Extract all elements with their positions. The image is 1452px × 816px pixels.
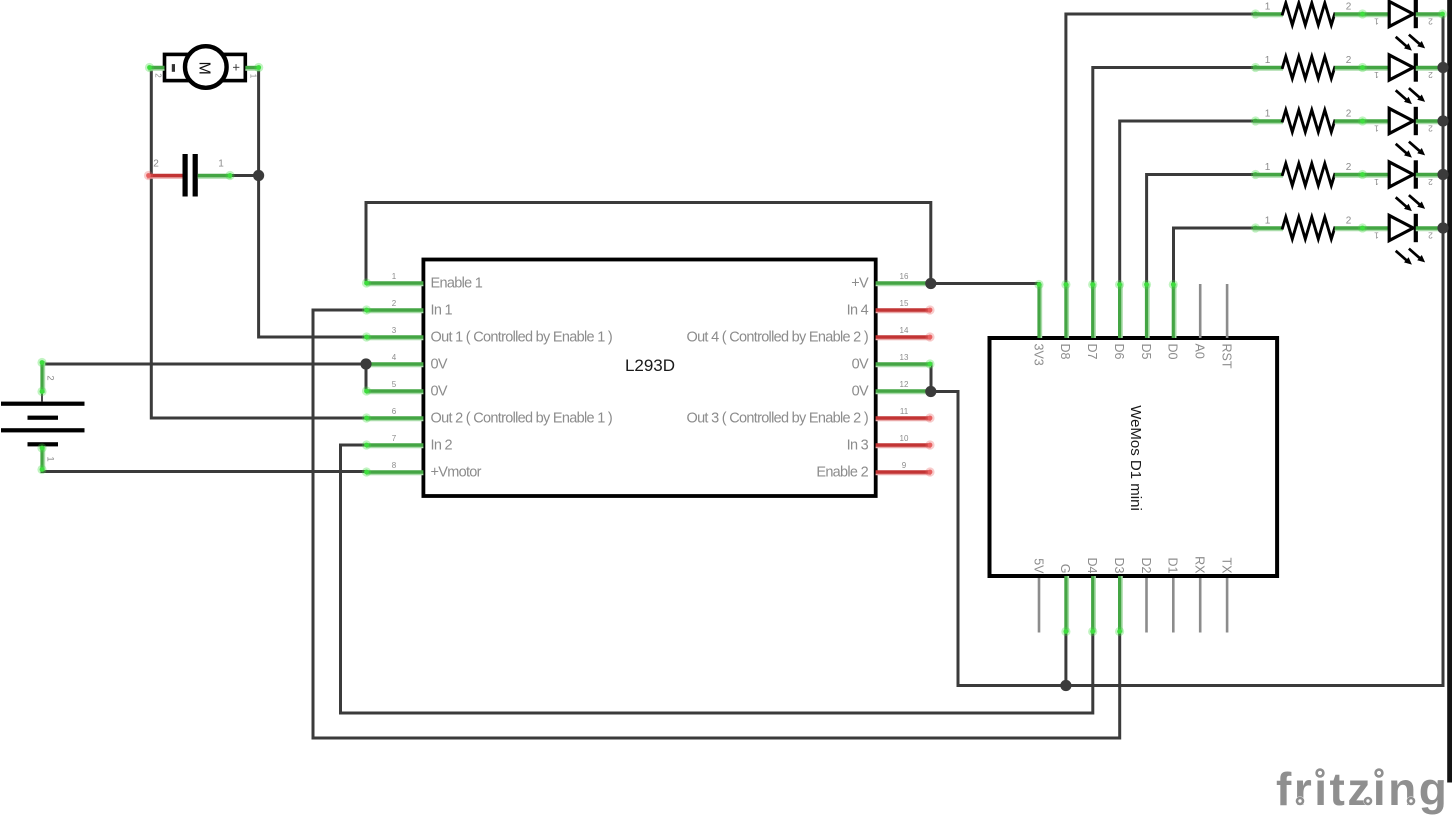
wire: L293D 0V pin13 down to 0V pin12 node [930, 364, 933, 392]
svg-text:3V3: 3V3 [1031, 344, 1045, 366]
wire: WeMos D6 up and over to resistor R3 [1120, 121, 1255, 284]
WeMos bottom pin D2 lead [1145, 578, 1148, 633]
resistor R1 and LED LED1 row [1251, 0, 1443, 51]
svg-text:2: 2 [45, 375, 56, 380]
svg-text:D4: D4 [1085, 558, 1099, 574]
resistor R2 and LED LED2 row [1251, 53, 1443, 104]
L293D pin 10 lead (In 3) [876, 446, 931, 448]
wire: WeMos G pin down to ground rail [1064, 633, 1067, 686]
wire: battery pin1 to L293D +Vmotor pin8 [42, 470, 366, 473]
L293D pin 12 lead (0V) [876, 392, 931, 394]
svg-text:2: 2 [392, 299, 397, 308]
L293D pin 2 lead (In 1) [366, 311, 423, 313]
node: 0V pin12 junction [925, 386, 936, 397]
wire: L293D Enable1 pin1 up and over to +V node [366, 203, 931, 284]
svg-text:3: 3 [392, 326, 397, 335]
svg-text:0V: 0V [431, 383, 448, 399]
WeMos bottom pin D4 lead [1094, 576, 1096, 633]
resistor R5 and LED LED5 row [1251, 214, 1443, 265]
battery pin 1 lead [43, 447, 45, 471]
node: LED5 cathode bus junction [1437, 222, 1448, 233]
svg-text:16: 16 [900, 272, 909, 281]
L293D pin 8 lead (+Vmotor) [366, 473, 423, 475]
L293D pin 5 lead (0V) [366, 392, 423, 394]
LED1 cathode bus corner cap [1438, 9, 1447, 18]
resistor R4 and LED LED4 row [1251, 160, 1443, 211]
wire: WeMos D8 up and over to resistor R1 [1066, 14, 1255, 284]
wire: WeMos D5 up and over to resistor R4 [1147, 175, 1255, 284]
motor M1 body rectangle [165, 54, 246, 80]
motor pin 1 lead [245, 69, 260, 71]
capacitor C1 plate right [193, 154, 198, 197]
wire: motor pin1 down to capacitor node [257, 68, 260, 176]
wire: LED cathode bus down right side to ground rail [1442, 14, 1445, 686]
capacitor pin 2 lead (red, unconnected) [147, 177, 183, 179]
svg-text:2: 2 [153, 73, 162, 78]
svg-text:G: G [1058, 564, 1072, 574]
WeMos top pin D5 lead [1148, 284, 1150, 339]
battery BAT1 plate short [28, 416, 59, 420]
node: LED2 cathode bus junction [1437, 62, 1448, 73]
svg-text:14: 14 [900, 326, 909, 335]
svg-text:Out 3 ( Controlled by Enable 2: Out 3 ( Controlled by Enable 2 ) [686, 410, 868, 426]
svg-text:11: 11 [900, 407, 909, 416]
wire: L293D In2 pin7 to WeMos D4 [341, 445, 1093, 713]
svg-text:9: 9 [902, 461, 907, 470]
op-amp driver IC U1 L293D body [423, 260, 875, 497]
svg-text:4: 4 [392, 353, 397, 362]
svg-text:5: 5 [392, 380, 397, 389]
svg-text:Out 2 ( Controlled by Enable 1: Out 2 ( Controlled by Enable 1 ) [431, 410, 613, 426]
battery pin 2 lead [43, 361, 45, 393]
battery internal pin lines [41, 393, 43, 402]
svg-text:5V: 5V [1031, 558, 1045, 574]
L293D pin 15 lead (In 4) [876, 311, 931, 313]
WeMos top pin 3V3 lead [1040, 284, 1042, 339]
svg-text:1: 1 [392, 272, 397, 281]
motor minus terminal mark [172, 64, 175, 72]
WeMos top pin A0 lead [1199, 284, 1202, 338]
WeMos bottom pin D3 lead [1121, 576, 1123, 633]
svg-text:RX: RX [1193, 556, 1207, 574]
WeMos bottom pin TX lead [1226, 578, 1229, 633]
L293D pin 13 lead (0V) [876, 365, 931, 367]
wire: capacitor node to L293D Out1 pin3 [259, 176, 366, 338]
svg-text:7: 7 [392, 434, 397, 443]
svg-text:Out 1 ( Controlled by Enable 1: Out 1 ( Controlled by Enable 1 ) [431, 329, 613, 345]
L293D pin 1 lead (Enable 1) [366, 284, 423, 286]
node: LED3 cathode bus junction [1437, 115, 1448, 126]
svg-text:8: 8 [392, 461, 397, 470]
svg-text:RST: RST [1219, 344, 1233, 369]
svg-text:D6: D6 [1112, 344, 1126, 360]
svg-text:6: 6 [392, 407, 397, 416]
node: pin4 0V junction with battery wire [360, 358, 371, 369]
svg-text:12: 12 [900, 380, 909, 389]
L293D pin 14 lead (Out 4 ( Controlled by Enable 2 )) [876, 338, 931, 340]
WeMos top pin D0 lead [1175, 284, 1177, 339]
svg-text:+V: +V [851, 275, 869, 291]
svg-text:0V: 0V [852, 356, 869, 372]
svg-text:D8: D8 [1058, 344, 1072, 360]
wire: WeMos D0 up and over to resistor R5 [1174, 228, 1256, 284]
wire: WeMos D7 up and over to resistor R2 [1093, 68, 1255, 284]
svg-text:1: 1 [45, 456, 56, 461]
svg-text:In 3: In 3 [847, 437, 869, 453]
wire: battery pin2 to L293D 0V pin4 [42, 363, 366, 366]
svg-text:15: 15 [900, 299, 909, 308]
svg-text:D3: D3 [1112, 558, 1126, 574]
battery BAT1 plate long bottom [1, 428, 85, 432]
svg-text:1: 1 [249, 74, 258, 79]
node: G / ground rail junction [1060, 680, 1071, 691]
WeMos bottom pin D1 lead [1172, 578, 1175, 633]
WeMos bottom pin RX lead [1199, 578, 1202, 633]
node: LED4 cathode bus junction [1437, 169, 1448, 180]
wire: clipped dark wire at right page edge [1447, 0, 1452, 783]
L293D pin 9 lead (Enable 2) [876, 473, 931, 475]
node: capacitor / motor / Out1 junction [253, 170, 264, 181]
svg-text:+Vmotor: +Vmotor [431, 464, 482, 480]
svg-text:D0: D0 [1166, 344, 1180, 360]
svg-text:0V: 0V [431, 356, 448, 372]
svg-text:WeMos D1 mini: WeMos D1 mini [1127, 405, 1144, 511]
L293D pin 3 lead (Out 1 ( Controlled by Enable 1 )) [366, 338, 423, 340]
battery BAT1 plate long top [1, 402, 85, 406]
L293D pin 6 lead (Out 2 ( Controlled by Enable 1 )) [366, 419, 423, 421]
node: +V / Enable1 / 3V3 junction [925, 278, 936, 289]
svg-text:TX: TX [1219, 558, 1233, 575]
svg-text:In 2: In 2 [431, 437, 453, 453]
svg-text:0V: 0V [852, 383, 869, 399]
svg-text:D7: D7 [1085, 344, 1099, 360]
WeMos bottom pin G lead [1067, 576, 1069, 633]
wire: 0V node to ground rail under WeMos [931, 392, 1443, 686]
svg-text:A0: A0 [1193, 344, 1207, 359]
svg-text:1: 1 [218, 159, 224, 170]
svg-text:Out 4 ( Controlled by Enable 2: Out 4 ( Controlled by Enable 2 ) [686, 329, 868, 345]
svg-text:Enable 2: Enable 2 [816, 464, 868, 480]
wire: L293D 0V pin4 to 0V pin5 [365, 364, 368, 391]
WeMos top pin D8 lead [1067, 284, 1069, 339]
WeMos top pin D7 lead [1094, 284, 1096, 339]
svg-text:In 4: In 4 [847, 302, 869, 318]
L293D pin 11 lead (Out 3 ( Controlled by Enable 2 )) [876, 419, 931, 421]
svg-text:L293D: L293D [625, 356, 675, 375]
WeMos top pin RST lead [1226, 284, 1229, 338]
battery BAT1 plate short bottom [28, 442, 59, 446]
svg-text:D2: D2 [1139, 558, 1153, 574]
svg-text:10: 10 [900, 434, 909, 443]
L293D pin 7 lead (In 2) [366, 446, 423, 448]
svg-text:D5: D5 [1139, 344, 1153, 360]
resistor R3 and LED LED3 row [1251, 107, 1443, 158]
microcontroller U2 WeMos D1 mini body [990, 338, 1278, 576]
wire: capacitor pin1 to node [231, 174, 259, 177]
svg-text:Enable 1: Enable 1 [431, 275, 483, 291]
WeMos top pin D6 lead [1121, 284, 1123, 339]
wire: L293D In1 pin2 to WeMos D3 [313, 310, 1120, 738]
wire: +V node to WeMos 3V3 [931, 282, 1039, 285]
motor M1 body circle [185, 46, 227, 88]
svg-text:fritzing: fritzing [1276, 763, 1449, 815]
svg-text:M: M [196, 62, 213, 75]
capacitor pin 1 lead (green) [198, 177, 232, 179]
wire: motor pin2 to L293D Out2 pin6 [151, 68, 366, 419]
WeMos bottom pin 5V lead [1038, 578, 1041, 633]
L293D pin 4 lead (0V) [366, 365, 423, 367]
L293D pin 16 lead (+V) [876, 284, 931, 286]
motor pin 2 lead [148, 69, 164, 71]
svg-text:2: 2 [153, 159, 159, 170]
svg-text:13: 13 [900, 353, 909, 362]
capacitor C1 plate left [183, 154, 188, 197]
svg-text:In 1: In 1 [431, 302, 453, 318]
svg-text:+: + [229, 64, 244, 72]
svg-text:D1: D1 [1166, 558, 1180, 574]
